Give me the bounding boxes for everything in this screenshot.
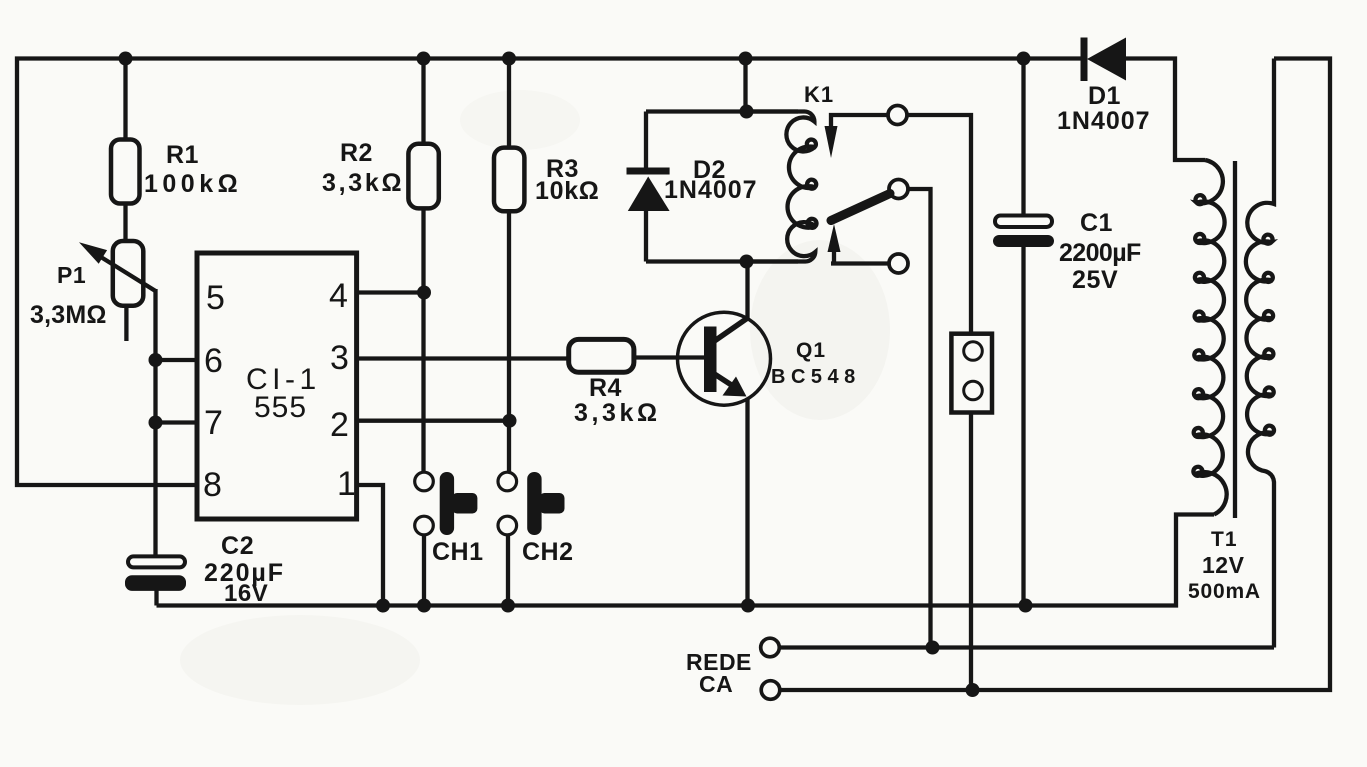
svg-text:CH2: CH2 bbox=[522, 538, 574, 566]
svg-text:8: 8 bbox=[203, 466, 222, 504]
svg-text:R4: R4 bbox=[589, 374, 622, 402]
svg-text:555: 555 bbox=[254, 391, 307, 424]
svg-text:T1: T1 bbox=[1211, 528, 1238, 551]
svg-text:Q1: Q1 bbox=[796, 339, 826, 362]
svg-text:3: 3 bbox=[330, 339, 349, 377]
svg-text:3,3kΩ: 3,3kΩ bbox=[574, 399, 661, 427]
svg-text:BC548: BC548 bbox=[771, 366, 861, 388]
svg-text:R2: R2 bbox=[340, 139, 373, 167]
svg-text:P1: P1 bbox=[57, 262, 86, 288]
svg-text:3,3kΩ: 3,3kΩ bbox=[322, 169, 404, 197]
svg-text:1N4007: 1N4007 bbox=[664, 176, 758, 204]
svg-text:R1: R1 bbox=[166, 141, 199, 169]
svg-text:1N4007: 1N4007 bbox=[1057, 107, 1151, 135]
svg-text:CH1: CH1 bbox=[432, 538, 484, 566]
svg-text:K1: K1 bbox=[804, 82, 834, 107]
svg-text:2200µF: 2200µF bbox=[1059, 239, 1141, 267]
svg-text:C2: C2 bbox=[221, 532, 254, 560]
svg-text:4: 4 bbox=[329, 277, 348, 315]
svg-text:2: 2 bbox=[330, 406, 349, 444]
svg-text:3,3MΩ: 3,3MΩ bbox=[30, 301, 107, 329]
svg-text:7: 7 bbox=[204, 404, 223, 442]
svg-text:D1: D1 bbox=[1088, 82, 1121, 110]
svg-text:6: 6 bbox=[204, 342, 223, 380]
svg-text:C1: C1 bbox=[1080, 209, 1113, 237]
svg-text:CA: CA bbox=[699, 671, 733, 697]
svg-text:25V: 25V bbox=[1072, 266, 1118, 294]
svg-text:12V: 12V bbox=[1202, 552, 1245, 578]
svg-text:1: 1 bbox=[337, 465, 356, 503]
svg-text:500mA: 500mA bbox=[1188, 580, 1261, 603]
svg-text:100kΩ: 100kΩ bbox=[144, 170, 242, 198]
svg-text:5: 5 bbox=[206, 279, 225, 317]
svg-text:10kΩ: 10kΩ bbox=[535, 177, 600, 205]
svg-text:16V: 16V bbox=[224, 580, 268, 607]
